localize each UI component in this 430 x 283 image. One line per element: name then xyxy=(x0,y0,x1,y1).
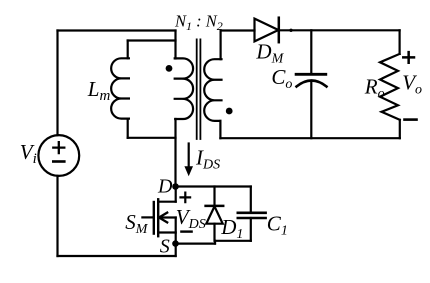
svg-text:Lm: Lm xyxy=(87,77,111,104)
transformer primary winding xyxy=(175,58,193,119)
svg-text:Vo: Vo xyxy=(402,71,422,98)
svg-text:D: D xyxy=(157,175,173,197)
wire Ro bottom lead xyxy=(399,120,401,138)
mosfet SM channel line xyxy=(157,199,159,236)
Vi plus sign xyxy=(53,142,64,153)
mosfet SM body arrow line xyxy=(158,216,176,218)
transformer secondary winding xyxy=(204,59,221,121)
mosfet SM source stub xyxy=(158,231,176,233)
svg-text:Vi: Vi xyxy=(20,140,37,167)
wire source node to snubber xyxy=(176,243,216,245)
inductor Lm winding xyxy=(111,58,129,118)
wire diode D1 bottom lead xyxy=(213,224,215,241)
junction node S xyxy=(172,240,179,247)
wire snubber bottom rail xyxy=(215,240,251,242)
svg-text:IDS: IDS xyxy=(195,146,220,173)
voltage source Vi circle xyxy=(38,135,79,176)
VDS minus sign xyxy=(181,230,191,232)
wire secondary bottom lead xyxy=(219,121,221,138)
junction node D xyxy=(172,183,179,190)
capacitor Co curved bottom plate xyxy=(297,81,327,87)
VDS plus sign xyxy=(181,193,191,203)
wire capacitor C1 bottom lead xyxy=(250,218,252,241)
transformer core line left xyxy=(196,39,198,139)
wire left vertical lower xyxy=(56,176,58,256)
svg-text:Co: Co xyxy=(271,65,292,92)
capacitor C1 bottom plate xyxy=(238,217,266,220)
wire source vertical to bottom rail xyxy=(175,218,177,257)
primary polarity dot xyxy=(166,65,173,72)
mosfet SM gate lead xyxy=(142,216,152,218)
transformer core line right xyxy=(199,39,201,139)
inductor Lm loop top edge xyxy=(128,39,176,41)
wire top rail right of DM xyxy=(279,29,400,31)
inductor Lm left lead upper xyxy=(127,41,129,59)
diode D1 triangle xyxy=(206,206,222,223)
current arrow IDS head xyxy=(184,166,193,176)
wire right vertical top lead xyxy=(399,30,401,54)
inductor Lm loop bottom edge xyxy=(128,137,176,139)
wire secondary top lead xyxy=(220,31,222,60)
svg-text:S: S xyxy=(160,236,170,258)
wire secondary top rail to diode xyxy=(221,29,255,31)
mosfet SM gate plate xyxy=(153,202,155,234)
wire drain stub xyxy=(158,201,176,203)
mosfet SM arrowhead xyxy=(159,213,167,223)
wire bottom rail xyxy=(58,255,176,257)
current arrow IDS xyxy=(188,144,190,168)
inductor Lm left lead lower xyxy=(127,119,129,138)
svg-text:C1: C1 xyxy=(267,212,288,239)
svg-text:DM: DM xyxy=(255,39,284,66)
wire Co bottom lead xyxy=(310,81,312,138)
wire drain vertical xyxy=(175,187,177,202)
secondary polarity dot xyxy=(226,108,233,115)
svg-text:SM: SM xyxy=(125,210,149,237)
diode DM cathode bar xyxy=(278,18,281,43)
wire primary bottom lead to drain node xyxy=(174,119,176,187)
wire Co top lead xyxy=(310,30,312,73)
wire capacitor C1 top lead xyxy=(250,187,252,213)
wire drain node rail (snubber top) xyxy=(176,185,251,187)
capacitor Co top plate xyxy=(296,73,326,76)
Vo plus sign xyxy=(403,52,414,63)
wire left vertical upper xyxy=(56,31,58,136)
wire diode D1 top lead xyxy=(213,187,215,207)
Vi minus sign xyxy=(53,160,64,163)
svg-text:VDS: VDS xyxy=(176,205,206,232)
resistor Ro zigzag xyxy=(380,54,400,120)
Vo minus sign xyxy=(405,118,417,121)
diode D1 cathode bar xyxy=(206,205,224,208)
capacitor C1 top plate xyxy=(238,212,266,215)
wire primary top lead xyxy=(174,31,176,59)
wire snubber bottom step xyxy=(214,241,216,244)
svg-text:N1 : N2: N1 : N2 xyxy=(174,12,223,33)
small node after DM xyxy=(289,29,292,32)
wire top rail left (Vi to primary) xyxy=(58,29,176,31)
wire bottom rail secondary xyxy=(220,137,399,139)
diode DM triangle xyxy=(255,19,279,42)
